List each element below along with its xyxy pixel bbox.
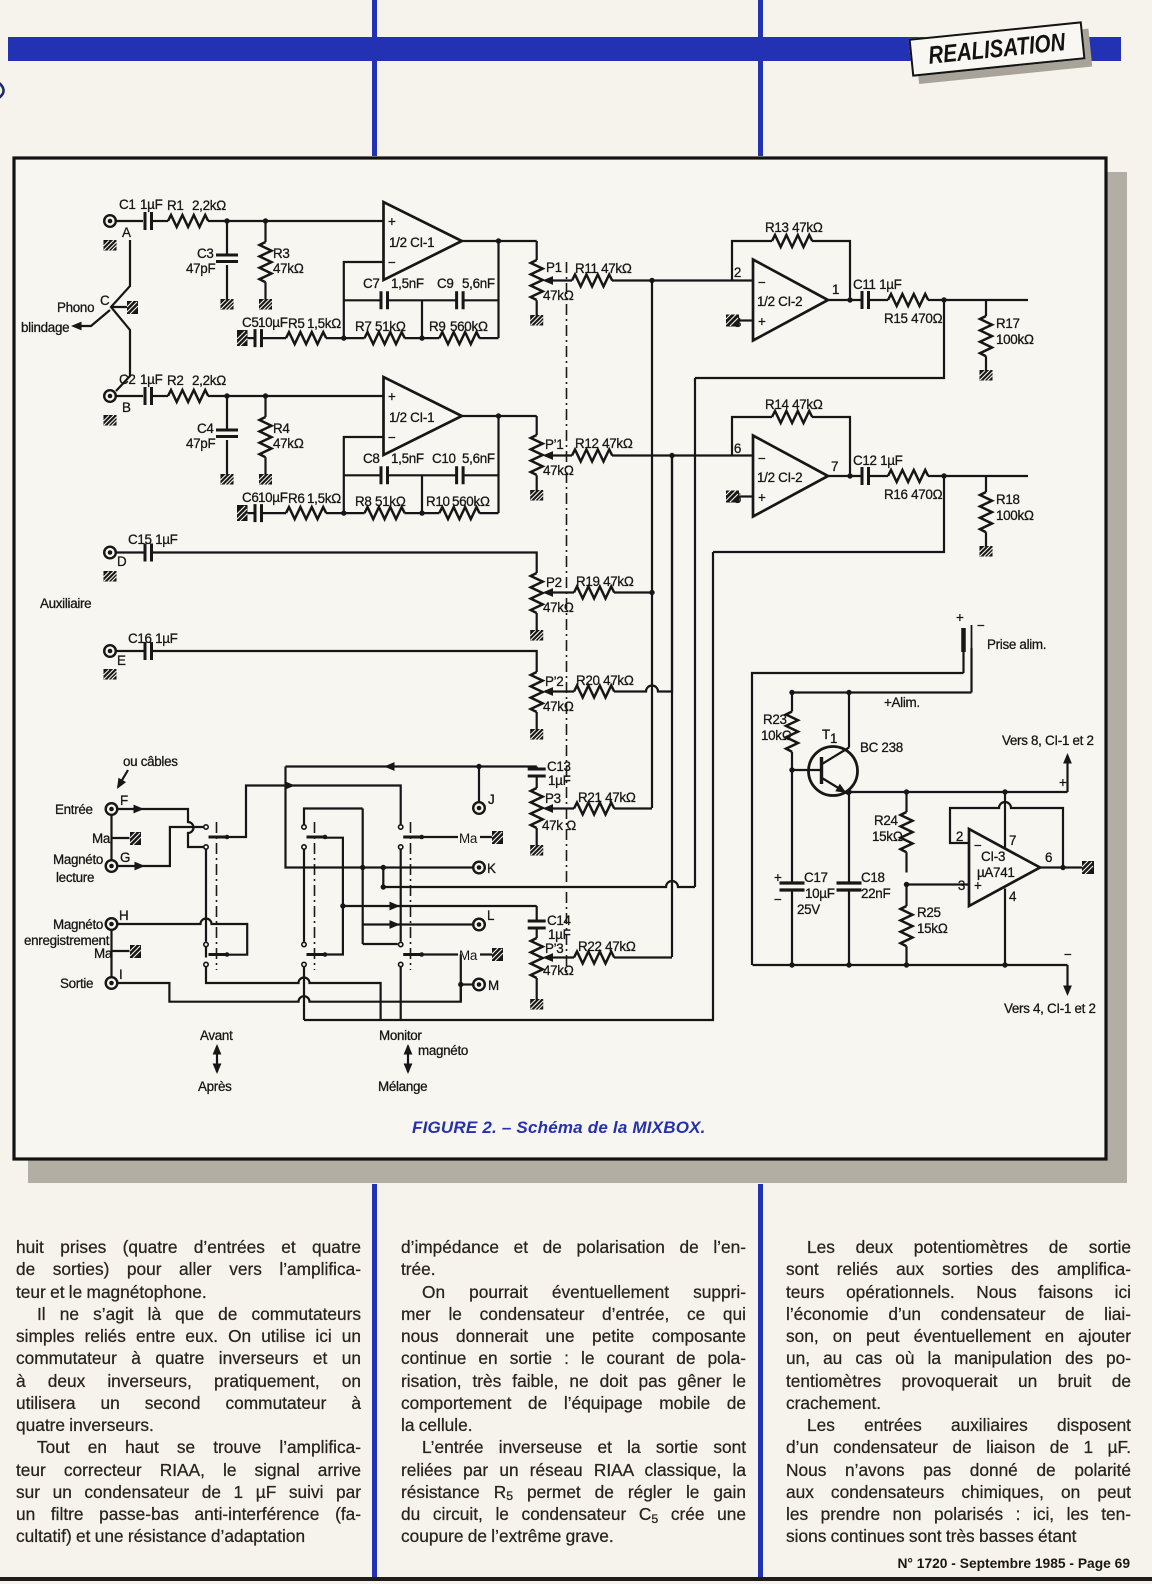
- svg-text:K: K: [487, 861, 496, 876]
- ground (selector C): [127, 301, 138, 314]
- wire jack I to bottom avant line: [118, 983, 461, 1002]
- wire CI-3 output: [1040, 866, 1082, 868]
- capacitor C9: [437, 276, 495, 309]
- label ou câbles with arrow: [113, 754, 178, 791]
- svg-text:10µF: 10µF: [258, 315, 288, 330]
- wire T1 emitter rail (+ supply to op-amps): [849, 792, 1068, 795]
- wire op-amp A output to P1: [462, 240, 537, 242]
- jack J: [473, 792, 494, 814]
- FIGURE caption: [412, 1118, 932, 1138]
- ground (Ma top right): [492, 831, 503, 844]
- svg-text:BC 238: BC 238: [860, 740, 903, 755]
- node at R3: [263, 218, 268, 223]
- wire R5 to R7: [326, 337, 365, 339]
- wire L line: [363, 920, 473, 929]
- svg-text:10µF: 10µF: [805, 886, 835, 901]
- node bus A at R19: [649, 590, 654, 595]
- svg-text:−: −: [774, 892, 782, 907]
- capacitor C12: [853, 453, 903, 485]
- label Magnéto enregistrement: [24, 917, 110, 948]
- svg-text:C3: C3: [197, 246, 214, 261]
- potentiometer P3: [531, 788, 576, 845]
- node output 1: [941, 297, 946, 302]
- wire CI-3 feedback pin2 loop (hop over pin7): [950, 802, 1063, 868]
- wire M riser to jack M: [460, 955, 462, 1002]
- resistor R19: [574, 574, 634, 599]
- node melange riser: [340, 903, 345, 908]
- svg-text:2,2kΩ: 2,2kΩ: [192, 198, 226, 213]
- wire C1 to R1: [152, 220, 168, 222]
- svg-text:blindage: blindage: [21, 320, 69, 335]
- wire R9 to right column (channel A): [479, 337, 498, 339]
- ground (P2): [530, 630, 543, 641]
- wire R6 to R8: [326, 512, 365, 514]
- ground (Ma bottom right): [492, 948, 503, 961]
- node at R4: [263, 393, 268, 398]
- svg-text:Avant: Avant: [200, 1028, 233, 1043]
- op-amp U3 1/2 CI-2 (output mixer 1): [734, 260, 839, 341]
- ground (P'2): [530, 729, 543, 740]
- node fb column right (channel A): [496, 238, 501, 243]
- mech link S2: [314, 822, 316, 970]
- op-amp U1 1/2 CI-1 (channel A RIAA): [384, 202, 462, 280]
- svg-text:1: 1: [832, 282, 839, 297]
- arrow Vers 8: [1002, 733, 1094, 792]
- svg-text:R11 47kΩ: R11 47kΩ: [575, 261, 632, 276]
- wire C12 to R16: [869, 475, 889, 477]
- wire CI-2b output to C12: [828, 475, 862, 477]
- svg-text:R25: R25: [917, 905, 941, 920]
- wire prise alim to rails: [964, 648, 972, 673]
- node R23 top: [789, 690, 794, 695]
- jack M: [473, 978, 499, 993]
- svg-text:C5: C5: [242, 315, 259, 330]
- label Monitor magnéto / Mélange with arrow: [378, 1028, 468, 1094]
- svg-text:+: +: [774, 870, 782, 885]
- wire jack F to switch S1a upper contact: [118, 805, 204, 847]
- svg-text:−: −: [758, 275, 766, 290]
- wire H9 riser to S3b upper contact: [363, 943, 398, 945]
- wire K line: [286, 767, 474, 868]
- wire to jack M: [461, 983, 474, 985]
- ground (jack A): [104, 240, 117, 251]
- jack I: [106, 967, 123, 989]
- svg-text:2: 2: [734, 265, 741, 280]
- op-amp U5 CI-3 µA741: [956, 829, 1052, 906]
- resistor R24: [872, 792, 913, 873]
- svg-text:15kΩ: 15kΩ: [872, 829, 903, 844]
- svg-text:7: 7: [831, 459, 838, 474]
- svg-text:6: 6: [1045, 850, 1052, 865]
- wire R20 to bus B (hop over bus A): [614, 456, 672, 692]
- svg-text:Monitor: Monitor: [379, 1028, 422, 1043]
- wiper arrow P2: [543, 588, 575, 597]
- switch S2b: [302, 942, 328, 966]
- wire R19 to bus A: [614, 591, 652, 593]
- svg-text:4: 4: [1009, 889, 1017, 904]
- svg-text:R7: R7: [355, 319, 372, 334]
- svg-text:P1: P1: [546, 260, 562, 275]
- ground (R4): [259, 474, 272, 485]
- node fb mid column (channel A): [419, 335, 424, 340]
- svg-text:2: 2: [956, 829, 963, 844]
- svg-text:1µF: 1µF: [140, 372, 163, 387]
- capacitor C11: [853, 277, 902, 309]
- svg-text:C16 1µF: C16 1µF: [128, 631, 178, 646]
- svg-text:R24: R24: [874, 813, 899, 828]
- wire C6 to R6: [262, 512, 286, 514]
- svg-text:5,6nF: 5,6nF: [462, 451, 495, 466]
- wire mélange line to C14: [343, 902, 537, 911]
- resistor R21: [574, 790, 636, 815]
- label Avant / Après with arrow: [198, 1028, 233, 1094]
- resistor R13 (feedback): [732, 220, 850, 300]
- svg-text:C15 1µF: C15 1µF: [128, 532, 178, 547]
- svg-text:1µF: 1µF: [548, 927, 571, 942]
- wire S3b lower contact down to monitor bus: [400, 967, 402, 1020]
- svg-text:R8: R8: [355, 494, 372, 509]
- +Alim rail: [792, 691, 972, 693]
- svg-text:C9: C9: [437, 276, 454, 291]
- potentiometer P2: [531, 573, 574, 630]
- svg-text:Ma: Ma: [459, 831, 478, 846]
- svg-text:R5: R5: [288, 316, 305, 331]
- svg-text:1,5nF: 1,5nF: [391, 276, 424, 291]
- svg-text:Ma: Ma: [94, 946, 113, 961]
- svg-text:C12 1µF: C12 1µF: [853, 453, 903, 468]
- wire + input CI-2a to ground block: [739, 319, 753, 321]
- svg-text:R21 47kΩ: R21 47kΩ: [578, 790, 636, 805]
- svg-text:µA741: µA741: [977, 865, 1015, 880]
- svg-text:1,5kΩ: 1,5kΩ: [307, 491, 341, 506]
- node -rail C18: [846, 962, 851, 967]
- ground (C3): [221, 299, 234, 310]
- svg-text:P’3: P’3: [545, 941, 563, 956]
- resistor R20: [574, 673, 634, 698]
- capacitor C10: [432, 451, 495, 484]
- svg-text:10µF: 10µF: [258, 490, 288, 505]
- ground (CI-3 output ref): [1082, 861, 1094, 874]
- capacitor C16: [128, 631, 178, 660]
- wire S3a pivot to Ma ground (top right): [422, 836, 492, 838]
- svg-text:R17: R17: [996, 316, 1020, 331]
- node fb left column (channel A): [341, 335, 346, 340]
- wire jack B to C2: [116, 395, 143, 397]
- svg-text:560kΩ: 560kΩ: [452, 494, 490, 509]
- svg-text:1/2 CI-1: 1/2 CI-1: [389, 235, 434, 250]
- svg-text:1/2 CI-2: 1/2 CI-2: [757, 294, 802, 309]
- wire jack H to S1b pivot: [118, 919, 248, 955]
- svg-text:C8: C8: [363, 451, 380, 466]
- wire R16 to output (channel 2): [928, 475, 1028, 477]
- svg-text:47kΩ: 47kΩ: [543, 600, 574, 615]
- svg-text:T: T: [822, 727, 830, 742]
- potentiometer P'2: [531, 672, 574, 729]
- wire R21 to bus A bottom: [614, 807, 652, 809]
- node output 2: [941, 473, 946, 478]
- wire CI-2a output to C11: [828, 299, 862, 301]
- ground (jack B): [104, 415, 117, 426]
- svg-text:10kΩ: 10kΩ: [761, 728, 792, 743]
- node at jack J riser: [476, 764, 481, 769]
- svg-text:C13: C13: [547, 759, 571, 774]
- node at C3: [224, 218, 229, 223]
- svg-text:15kΩ: 15kΩ: [917, 921, 948, 936]
- mech link S3: [410, 822, 412, 970]
- resistor R9: [429, 319, 488, 344]
- svg-text:25V: 25V: [797, 902, 820, 917]
- ground (R17): [980, 370, 993, 381]
- resistor R1: [167, 198, 226, 227]
- svg-text:C1: C1: [119, 197, 136, 212]
- wire CI-3 pin 7 to + rail: [1004, 792, 1006, 848]
- svg-text:47kΩ: 47kΩ: [543, 699, 574, 714]
- capacitor C17 (electrolytic 10µF 25V): [774, 770, 835, 965]
- svg-text:+: +: [388, 214, 396, 229]
- phono input selector common point C: [100, 240, 130, 391]
- jack F: [106, 793, 128, 815]
- wire R11 to CI-2a inverting input: [612, 279, 753, 281]
- capacitor C3: [186, 221, 238, 300]
- wire C5 to R5: [262, 337, 286, 339]
- capacitor C2: [119, 372, 163, 405]
- svg-text:560kΩ: 560kΩ: [450, 319, 488, 334]
- svg-text:2,2kΩ: 2,2kΩ: [192, 373, 226, 388]
- capacitor C14: [528, 906, 572, 942]
- wire fb cap row (channel A): [344, 299, 499, 301]
- svg-text:1: 1: [830, 731, 837, 746]
- svg-text:C17: C17: [804, 870, 828, 885]
- op-amp U2 1/2 CI-1 (channel B RIAA): [384, 377, 462, 455]
- resistor R22: [574, 939, 636, 964]
- wire op-amp B output to P'1: [462, 415, 537, 417]
- svg-text:I: I: [119, 967, 122, 982]
- ground (R18): [980, 546, 993, 557]
- svg-text:47k Ω: 47k Ω: [542, 818, 576, 833]
- svg-text:Vers 8, CI-1 et 2: Vers 8, CI-1 et 2: [1002, 733, 1094, 748]
- svg-text:22nF: 22nF: [861, 886, 890, 901]
- wiper arrow P'1: [543, 451, 573, 460]
- svg-text:1µF: 1µF: [140, 197, 163, 212]
- resistor R6: [286, 491, 341, 519]
- svg-text:6: 6: [734, 441, 741, 456]
- arrow Vers 4: [1004, 965, 1096, 1016]
- wiper arrow P'2: [543, 687, 575, 696]
- capacitor C8: [363, 451, 424, 484]
- wire C11 to R15: [869, 299, 889, 301]
- svg-text:51kΩ: 51kΩ: [375, 319, 406, 334]
- node M junction: [458, 982, 463, 987]
- svg-text:R14 47kΩ: R14 47kΩ: [765, 397, 823, 412]
- node CI-2b output fb: [847, 473, 852, 478]
- node bus A at R11: [649, 278, 654, 283]
- svg-text:C: C: [100, 293, 110, 308]
- svg-text:+: +: [758, 314, 766, 329]
- svg-text:+: +: [1059, 775, 1067, 790]
- svg-text:+Alim.: +Alim.: [884, 695, 920, 710]
- wire R15 to output (channel 1): [928, 299, 1028, 301]
- node M riser: [458, 952, 463, 957]
- svg-text:M: M: [488, 978, 499, 993]
- svg-text:C2: C2: [119, 372, 136, 387]
- wire S1b lower contact row (après): [206, 947, 381, 1020]
- svg-text:C7: C7: [363, 276, 380, 291]
- svg-text:1/2 CI-2: 1/2 CI-2: [757, 470, 802, 485]
- wire R12 to CI-2b inverting input: [612, 454, 753, 456]
- svg-text:1,5nF: 1,5nF: [391, 451, 424, 466]
- top supply wire: [752, 673, 972, 965]
- svg-text:P’2: P’2: [545, 674, 563, 689]
- resistor R4: [260, 396, 304, 475]
- ground (CI-2a + input): [726, 314, 739, 327]
- ground (jack E): [104, 669, 117, 680]
- ground (C6): [237, 505, 248, 521]
- svg-text:C11 1µF: C11 1µF: [853, 277, 902, 292]
- svg-text:Après: Après: [198, 1079, 232, 1094]
- wiper arrow P'3: [543, 953, 575, 962]
- jack G: [106, 850, 130, 872]
- ground (C5): [237, 330, 248, 346]
- wire R10 to right column (channel B): [479, 512, 498, 514]
- node at C4: [224, 393, 229, 398]
- schematic frame shadow: [1106, 172, 1127, 1183]
- svg-text:47kΩ: 47kΩ: [273, 436, 304, 451]
- svg-text:C18: C18: [861, 870, 885, 885]
- capacitor C4: [186, 396, 238, 475]
- svg-text:P2: P2: [546, 575, 562, 590]
- wiper arrow P3: [543, 804, 575, 813]
- ground (jack D): [104, 571, 117, 582]
- switch S2a: [302, 825, 328, 849]
- svg-text:100kΩ: 100kΩ: [996, 332, 1034, 347]
- capacitor C18 (22nF): [837, 792, 891, 965]
- svg-text:Entrée: Entrée: [55, 802, 93, 817]
- svg-text:lecture: lecture: [56, 870, 94, 885]
- wire C2 to R2: [152, 395, 168, 397]
- svg-text:3: 3: [958, 878, 965, 893]
- transistor Q1 T1 BC238: [792, 727, 903, 797]
- resistor R15: [884, 294, 943, 326]
- svg-text:47kΩ: 47kΩ: [543, 463, 574, 478]
- wire S2b lower contact down to monitor bus: [303, 967, 305, 1020]
- capacitor C15: [128, 532, 178, 562]
- capacitor C1: [119, 197, 163, 230]
- svg-text:ou câbles: ou câbles: [123, 754, 178, 769]
- node -rail R25: [904, 962, 909, 967]
- blue column divider top segments: [372, 0, 377, 156]
- svg-text:47pF: 47pF: [186, 436, 215, 451]
- ground (R3): [259, 299, 272, 310]
- svg-text:1,5kΩ: 1,5kΩ: [307, 316, 341, 331]
- ground (C4): [221, 474, 234, 485]
- node CI-3 output: [1060, 865, 1065, 870]
- jack E: [104, 645, 126, 668]
- svg-text:G: G: [120, 850, 130, 865]
- svg-text:P3: P3: [545, 791, 561, 806]
- node K line at monitor riser: [381, 865, 386, 870]
- jack B: [104, 390, 131, 415]
- svg-text:−: −: [977, 618, 985, 633]
- svg-text:C10: C10: [432, 451, 456, 466]
- wire S3a lower contact down to S3b upper contact: [400, 850, 402, 942]
- ground (P'3): [530, 999, 543, 1010]
- node K line at S2a riser: [360, 865, 365, 870]
- wire jack A to C1: [116, 220, 143, 222]
- svg-text:Phono: Phono: [57, 300, 94, 315]
- svg-text:H: H: [119, 908, 128, 923]
- resistor R18: [980, 476, 1034, 546]
- label blindage with arrow: [21, 310, 110, 335]
- bus A (channel 1 summing node): [651, 281, 653, 809]
- wire S2a upper contact loop over to K/L riser: [304, 809, 363, 945]
- node R24/R25 divider: [904, 882, 909, 887]
- resistor R5: [286, 316, 341, 344]
- svg-text:R1: R1: [167, 198, 184, 213]
- ground (Ma top): [130, 832, 141, 845]
- node emitter rail R24: [904, 789, 909, 794]
- node -rail C17: [789, 962, 794, 967]
- svg-text:Mélange: Mélange: [378, 1079, 427, 1094]
- potentiometer P'3: [531, 938, 574, 999]
- bus B (channel 2 summing node): [671, 456, 673, 958]
- svg-text:Prise alim.: Prise alim.: [987, 637, 1046, 652]
- svg-text:Vers 4, CI-1 et 2: Vers 4, CI-1 et 2: [1004, 1001, 1096, 1016]
- capacitor C5 (electrolytic 10µF): [242, 315, 288, 347]
- shield bus F-G with Ma tap: [112, 815, 130, 860]
- wire output 2 down to bus D: [713, 476, 944, 552]
- svg-text:47kΩ: 47kΩ: [273, 261, 304, 276]
- ground (Ma bottom left): [130, 945, 141, 958]
- svg-text:R22 47kΩ: R22 47kΩ: [578, 939, 636, 954]
- wire jack E / C16 to P'2: [116, 651, 537, 672]
- switch S3b: [399, 942, 425, 966]
- switch S3a: [399, 825, 425, 849]
- svg-text:C4: C4: [197, 421, 214, 436]
- REALISATION magazine rubric logo: [909, 21, 1086, 76]
- svg-text:Magnéto: Magnéto: [53, 852, 103, 867]
- mech link S1: [216, 822, 218, 970]
- node -rail pin4: [1002, 962, 1007, 967]
- svg-text:R10: R10: [426, 494, 450, 509]
- svg-text:R23: R23: [763, 712, 787, 727]
- label Magnéto lecture: [53, 852, 103, 885]
- svg-text:51kΩ: 51kΩ: [375, 494, 406, 509]
- svg-text:magnéto: magnéto: [418, 1043, 468, 1058]
- jack L: [473, 908, 494, 930]
- wiper C to shield ground: [111, 306, 128, 308]
- jack D: [104, 547, 127, 569]
- pen mark top-left margin: [0, 82, 4, 100]
- capacitor C7: [363, 276, 424, 309]
- bus D (channel 2 output to monitor switch): [304, 552, 713, 1020]
- svg-text:−: −: [1064, 947, 1072, 962]
- ground (P3): [530, 845, 543, 856]
- svg-text:R15 470Ω: R15 470Ω: [884, 311, 943, 326]
- svg-text:5,6nF: 5,6nF: [462, 276, 495, 291]
- node T1 collector top: [846, 690, 851, 695]
- wire R8 to R10: [405, 512, 440, 514]
- svg-text:R16 470Ω: R16 470Ω: [884, 487, 943, 502]
- resistor R23: [761, 693, 798, 771]
- svg-text:R6: R6: [288, 491, 305, 506]
- wire R22 to bus B bottom: [614, 956, 672, 958]
- node bus B at R12: [669, 453, 674, 458]
- svg-text:R19 47kΩ: R19 47kΩ: [576, 574, 634, 589]
- resistor R2: [167, 373, 226, 402]
- wire J line to C13 (avant/après feed): [286, 762, 537, 771]
- svg-text:C6: C6: [242, 490, 259, 505]
- svg-text:F: F: [120, 793, 128, 808]
